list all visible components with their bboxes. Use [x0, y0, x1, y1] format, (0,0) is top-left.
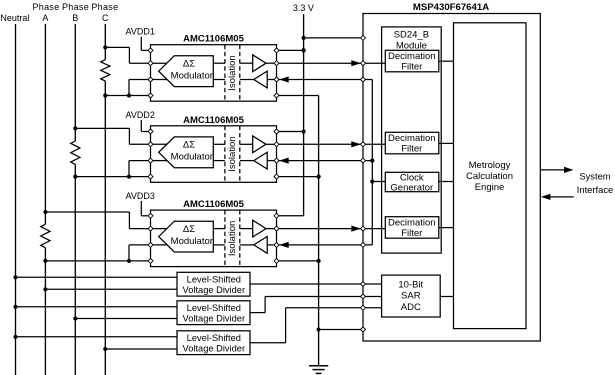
- wire AMC2 modulator out to isolation: [213, 143, 225, 145]
- wire divider A out to SAR ADC: [250, 283, 382, 285]
- wire AMC3 VDD2 to 3.3V rail: [277, 215, 304, 217]
- junction phase node 1: [43, 287, 47, 291]
- pin AMC3.L3: [148, 242, 153, 247]
- wire 3.3V to MSP supply pin: [304, 37, 363, 39]
- wire neutral to divider 2: [16, 306, 178, 308]
- wire phase C line (upper): [104, 24, 106, 60]
- wire decimation filter 3 to metrology: [439, 227, 454, 229]
- wire AVDD3 to AMC3: [140, 201, 142, 216]
- junction shunt1 bottom node: [103, 93, 107, 97]
- wire isolation to modulator clock 2: [213, 160, 225, 162]
- svg-text:AMC1106M05: AMC1106M05: [183, 199, 244, 210]
- wire decimation filter 1 to metrology: [439, 60, 454, 62]
- arrow clock 2 into AMC2: [279, 158, 289, 164]
- svg-text:Decimation: Decimation: [388, 133, 436, 144]
- wire phase B line (lower): [74, 164, 76, 375]
- wire clock to AMC1: [277, 79, 373, 81]
- wire system interface in: [550, 196, 574, 198]
- svg-text:C: C: [102, 13, 109, 23]
- pin AMC2.L2: [148, 142, 153, 147]
- wire shunt1 bottom to AMC1 GND: [105, 95, 150, 97]
- wire isolation to modulator clock 1: [213, 79, 225, 81]
- svg-text:Voltage Divider: Voltage Divider: [183, 343, 246, 353]
- svg-text:AVDD3: AVDD3: [126, 191, 155, 201]
- svg-text:Isolation: Isolation: [227, 55, 238, 90]
- isolation barrier 3: [225, 210, 240, 267]
- wire AMC2 GND2 to GND rail: [277, 176, 319, 178]
- svg-text:Voltage Divider: Voltage Divider: [183, 313, 246, 323]
- junction GND rail AMC2: [317, 175, 321, 179]
- wire shunt3 top to AMC3 IN+: [45, 211, 129, 213]
- svg-text:Engine: Engine: [475, 182, 505, 193]
- resistor shunt phase B: [71, 141, 80, 164]
- pin AMC2.L1: [148, 129, 153, 134]
- isolation barrier 2: [225, 126, 240, 183]
- svg-text:Decimation: Decimation: [388, 218, 436, 229]
- svg-text:Neutral: Neutral: [0, 13, 29, 23]
- svg-text:Isolation: Isolation: [227, 136, 238, 171]
- junction clock rail / generator: [370, 179, 374, 183]
- svg-text:AVDD2: AVDD2: [126, 110, 155, 120]
- svg-text:Metrology: Metrology: [469, 160, 511, 171]
- junction jog node 2: [127, 175, 131, 179]
- svg-text:Filter: Filter: [401, 62, 422, 73]
- IC U3 AMC1106M05 box: [151, 210, 277, 267]
- wire 3.3V rail: [303, 14, 305, 216]
- wire AMC2 modulator input +: [151, 143, 177, 145]
- arrow data 1 into MSP: [351, 60, 361, 66]
- pin AMC1.R1: [274, 48, 279, 53]
- svg-text:AVDD1: AVDD1: [126, 27, 155, 37]
- svg-text:ΔΣ: ΔΣ: [183, 59, 195, 70]
- junction jog node 1: [127, 93, 131, 97]
- pin AMC2.R1: [274, 129, 279, 134]
- pin AMC1.L1: [148, 48, 153, 53]
- wire shunt2 bottom to AMC2 GND: [75, 176, 150, 178]
- svg-text:Phase: Phase: [91, 2, 118, 12]
- svg-text:Filter: Filter: [401, 144, 422, 155]
- wire AMC1 data out to decimation filter 1: [277, 62, 386, 64]
- wire phase to divider 2: [75, 318, 177, 320]
- pin MSP430.2: [361, 61, 366, 66]
- wire buffer to isolation clock 3: [240, 244, 254, 246]
- block Level-Shifted Voltage Divider 1: [177, 272, 250, 296]
- svg-text:Isolation: Isolation: [227, 221, 238, 256]
- svg-text:SAR: SAR: [401, 291, 421, 302]
- wire AMC1 modulator out to isolation: [213, 62, 225, 64]
- svg-text:ADC: ADC: [401, 302, 421, 313]
- junction shunt2 top node: [73, 126, 77, 130]
- svg-text:Filter: Filter: [401, 228, 422, 239]
- wire shunt2 top to AMC2 IN+: [75, 127, 129, 129]
- pin MSP430.10: [361, 305, 366, 310]
- wire AMC2 buffer to data pin: [266, 143, 277, 145]
- pin AMC2.R3: [274, 158, 279, 163]
- pin AMC3.L1: [148, 213, 153, 218]
- svg-text:Modulator: Modulator: [171, 236, 213, 247]
- isolation barrier 1: [225, 45, 240, 101]
- resistor shunt phase A: [41, 224, 50, 247]
- arrow data 3 into MSP: [351, 226, 361, 232]
- wire AMC1 buffer to data pin: [266, 62, 277, 64]
- svg-text:Level-Shifted: Level-Shifted: [187, 333, 241, 343]
- wire AMC3 modulator input -: [151, 244, 177, 246]
- svg-text:Calculation: Calculation: [466, 171, 513, 182]
- block Decimation Filter 2: [385, 132, 439, 154]
- wire AMC1 VDD2 to 3.3V rail: [277, 49, 304, 51]
- junction jog node 3: [127, 259, 131, 263]
- junction neutral node 3: [13, 335, 17, 339]
- svg-text:Interface: Interface: [577, 184, 613, 195]
- wire jog to AMC1 IN-: [128, 80, 130, 96]
- pin AMC1.L2: [148, 61, 153, 66]
- pin AMC1.L3: [148, 77, 153, 82]
- junction shunt3 top node: [43, 210, 47, 214]
- pin AMC3.R2: [274, 226, 279, 231]
- wire AMC3 buffer to data pin: [266, 228, 277, 230]
- wire clock generator output: [372, 181, 385, 183]
- wire phase B line (upper): [74, 24, 76, 141]
- IC U2 AMC1106M05 box: [151, 126, 277, 183]
- wire neutral line: [15, 24, 17, 375]
- wire buffer to isolation clock 1: [240, 79, 254, 81]
- buffer data out 3: [253, 220, 266, 237]
- wire shunt1 top to AMC1 IN+: [105, 46, 129, 48]
- wire AMC2 data out to decimation filter 2: [277, 143, 386, 145]
- junction shunt2 bottom node: [73, 175, 77, 179]
- svg-text:B: B: [72, 13, 78, 23]
- wire AMC1 clock pin to buffer: [267, 79, 276, 81]
- junction 3.3V/MSP tee: [302, 36, 306, 40]
- junction shunt1 top node: [103, 45, 107, 49]
- pin MSP430.6: [361, 226, 366, 231]
- junction 3.3V rail AMC2: [302, 129, 306, 133]
- svg-text:AMC1106M05: AMC1106M05: [183, 115, 244, 126]
- pin AMC3.R3: [274, 242, 279, 247]
- arrow data 2 into MSP: [351, 141, 361, 147]
- wire AMC3 modulator out to isolation: [213, 228, 225, 230]
- delta-sigma modulator 3: [159, 221, 214, 252]
- svg-text:10-Bit: 10-Bit: [398, 280, 423, 291]
- block 10-Bit SAR ADC: [382, 275, 441, 317]
- wire clock distribution rail: [371, 80, 373, 245]
- svg-text:AMC1106M05: AMC1106M05: [183, 34, 244, 45]
- wire AMC1 modulator input -: [151, 79, 177, 81]
- buffer data out 1: [253, 55, 266, 72]
- wire GND rail to MSP ground pin: [319, 329, 363, 331]
- svg-text:Level-Shifted: Level-Shifted: [187, 275, 241, 285]
- svg-text:Decimation: Decimation: [388, 51, 436, 62]
- wire AMC3 GND2 to GND rail: [277, 260, 319, 262]
- junction neutral node 2: [13, 305, 17, 309]
- wire system interface out: [540, 169, 564, 171]
- wire decimation filter 2 to metrology: [439, 142, 454, 144]
- svg-text:System: System: [579, 171, 610, 182]
- pin AMC1.L4: [148, 93, 153, 98]
- wire buffer to isolation clock 2: [240, 160, 254, 162]
- wire AMC3 clock pin to buffer: [267, 244, 276, 246]
- svg-text:3.3 V: 3.3 V: [293, 3, 314, 13]
- junction 3.3V rail AMC1: [302, 48, 306, 52]
- wire AVDD1 to AMC1: [140, 37, 142, 51]
- pin MSP430.7: [361, 242, 366, 247]
- wire jog to AMC3 IN-: [128, 245, 130, 261]
- pin MSP430.9: [361, 294, 366, 299]
- wire isolation to buffer 2: [240, 143, 253, 145]
- svg-text:Voltage Divider: Voltage Divider: [183, 285, 246, 295]
- wire divider C out to SAR ADC: [250, 342, 286, 344]
- wire neutral to divider 3: [16, 336, 178, 338]
- wire AVDD2 to AMC2: [140, 120, 142, 132]
- junction 3.3V rail AMC1 tee: [302, 48, 306, 52]
- pin AMC1.R3: [274, 77, 279, 82]
- wire phase A line (lower): [44, 248, 46, 375]
- wire clock to AMC3: [277, 244, 373, 246]
- block Level-Shifted Voltage Divider 2: [177, 301, 250, 325]
- wire divider B out to SAR ADC: [250, 312, 265, 314]
- wire isolation to modulator clock 3: [213, 244, 225, 246]
- svg-text:Phase: Phase: [32, 2, 59, 12]
- buffer data out 2: [253, 136, 266, 153]
- svg-text:Level-Shifted: Level-Shifted: [187, 303, 241, 313]
- IC U2 MSP430F67641A outer box: [363, 14, 540, 342]
- wire clock to AMC2: [277, 160, 373, 162]
- wire shunt3 bottom to AMC3 GND: [45, 260, 150, 262]
- buffer clock in 2: [254, 152, 267, 169]
- block Decimation Filter 3: [385, 217, 439, 239]
- junction GND rail/MSP tee: [317, 327, 321, 331]
- wire AMC3 data out to decimation filter 3: [277, 228, 386, 230]
- wire neutral to divider 1: [16, 276, 178, 278]
- wire AMC1 modulator input +: [151, 62, 177, 64]
- pin AMC2.R2: [274, 142, 279, 147]
- svg-text:Generator: Generator: [390, 182, 433, 193]
- wire isolation to buffer 1: [240, 62, 253, 64]
- pin AMC2.L4: [148, 174, 153, 179]
- wire AMC1 GND2 to GND rail: [277, 95, 319, 97]
- pin MSP430.3: [361, 77, 366, 82]
- pin AMC1.R2: [274, 61, 279, 66]
- svg-text:Phase: Phase: [62, 2, 89, 12]
- block Metrology Calculation Engine: [454, 23, 527, 329]
- pin MSP430.5: [361, 158, 366, 163]
- arrow clock 3 into AMC3: [279, 242, 289, 248]
- pin AMC3.R1: [274, 213, 279, 218]
- svg-text:Modulator: Modulator: [171, 152, 213, 163]
- junction phase node 2: [73, 316, 77, 320]
- svg-text:Modulator: Modulator: [171, 71, 213, 82]
- junction shunt3 bottom node: [43, 259, 47, 263]
- svg-text:A: A: [42, 13, 48, 23]
- wire jog to AMC2 IN-: [128, 161, 130, 177]
- delta-sigma modulator 2: [159, 137, 214, 168]
- IC U1 AMC1106M05 box: [151, 45, 277, 101]
- wire isolation to buffer 3: [240, 228, 253, 230]
- wire phase to divider 1: [45, 288, 177, 290]
- pin AMC3.R4: [274, 258, 279, 263]
- junction neutral node 1: [13, 275, 17, 279]
- wire AMC3 modulator input +: [151, 228, 177, 230]
- ground symbol: [309, 366, 328, 374]
- arrow system interface in: [541, 194, 551, 200]
- svg-text:SD24_B: SD24_B: [394, 29, 429, 40]
- buffer clock in 1: [254, 71, 267, 88]
- pin AMC2.L3: [148, 158, 153, 163]
- wire phase A line (upper): [44, 24, 46, 224]
- wire SAR ADC to metrology: [440, 296, 453, 298]
- arrow clock 1 into AMC1: [279, 76, 289, 82]
- wire AMC2 VDD2 to 3.3V rail: [277, 131, 304, 133]
- pin MSP430.8: [361, 282, 366, 287]
- delta-sigma modulator 1: [159, 56, 214, 87]
- block Clock Generator: [385, 172, 439, 191]
- block Decimation Filter 1: [385, 50, 439, 72]
- wire AMC2 modulator input -: [151, 160, 177, 162]
- wire GND rail: [318, 96, 320, 366]
- buffer clock in 3: [254, 237, 267, 254]
- pin MSP430.4: [361, 142, 366, 147]
- junction clock rail / clock 2: [370, 159, 374, 163]
- wire clock generator to metrology: [439, 181, 454, 183]
- svg-text:ΔΣ: ΔΣ: [183, 140, 195, 151]
- block SD24_B Module box: [382, 27, 442, 253]
- svg-text:ΔΣ: ΔΣ: [183, 224, 195, 235]
- arrow system interface out: [564, 167, 574, 173]
- junction GND rail AMC3: [317, 259, 321, 263]
- pin MSP430.11: [361, 327, 366, 332]
- pin AMC3.L4: [148, 258, 153, 263]
- wire AMC2 clock pin to buffer: [267, 160, 276, 162]
- wire phase to divider 3: [105, 348, 177, 350]
- wire phase C line (lower): [104, 81, 106, 375]
- pin AMC1.R4: [274, 93, 279, 98]
- pin AMC2.R4: [274, 174, 279, 179]
- pin MSP430.1: [361, 35, 366, 40]
- resistor shunt phase C: [101, 60, 110, 81]
- junction phase node 3: [103, 347, 107, 351]
- block Level-Shifted Voltage Divider 3: [177, 331, 250, 355]
- svg-text:MSP430F67641A: MSP430F67641A: [413, 2, 489, 13]
- pin AMC3.L2: [148, 226, 153, 231]
